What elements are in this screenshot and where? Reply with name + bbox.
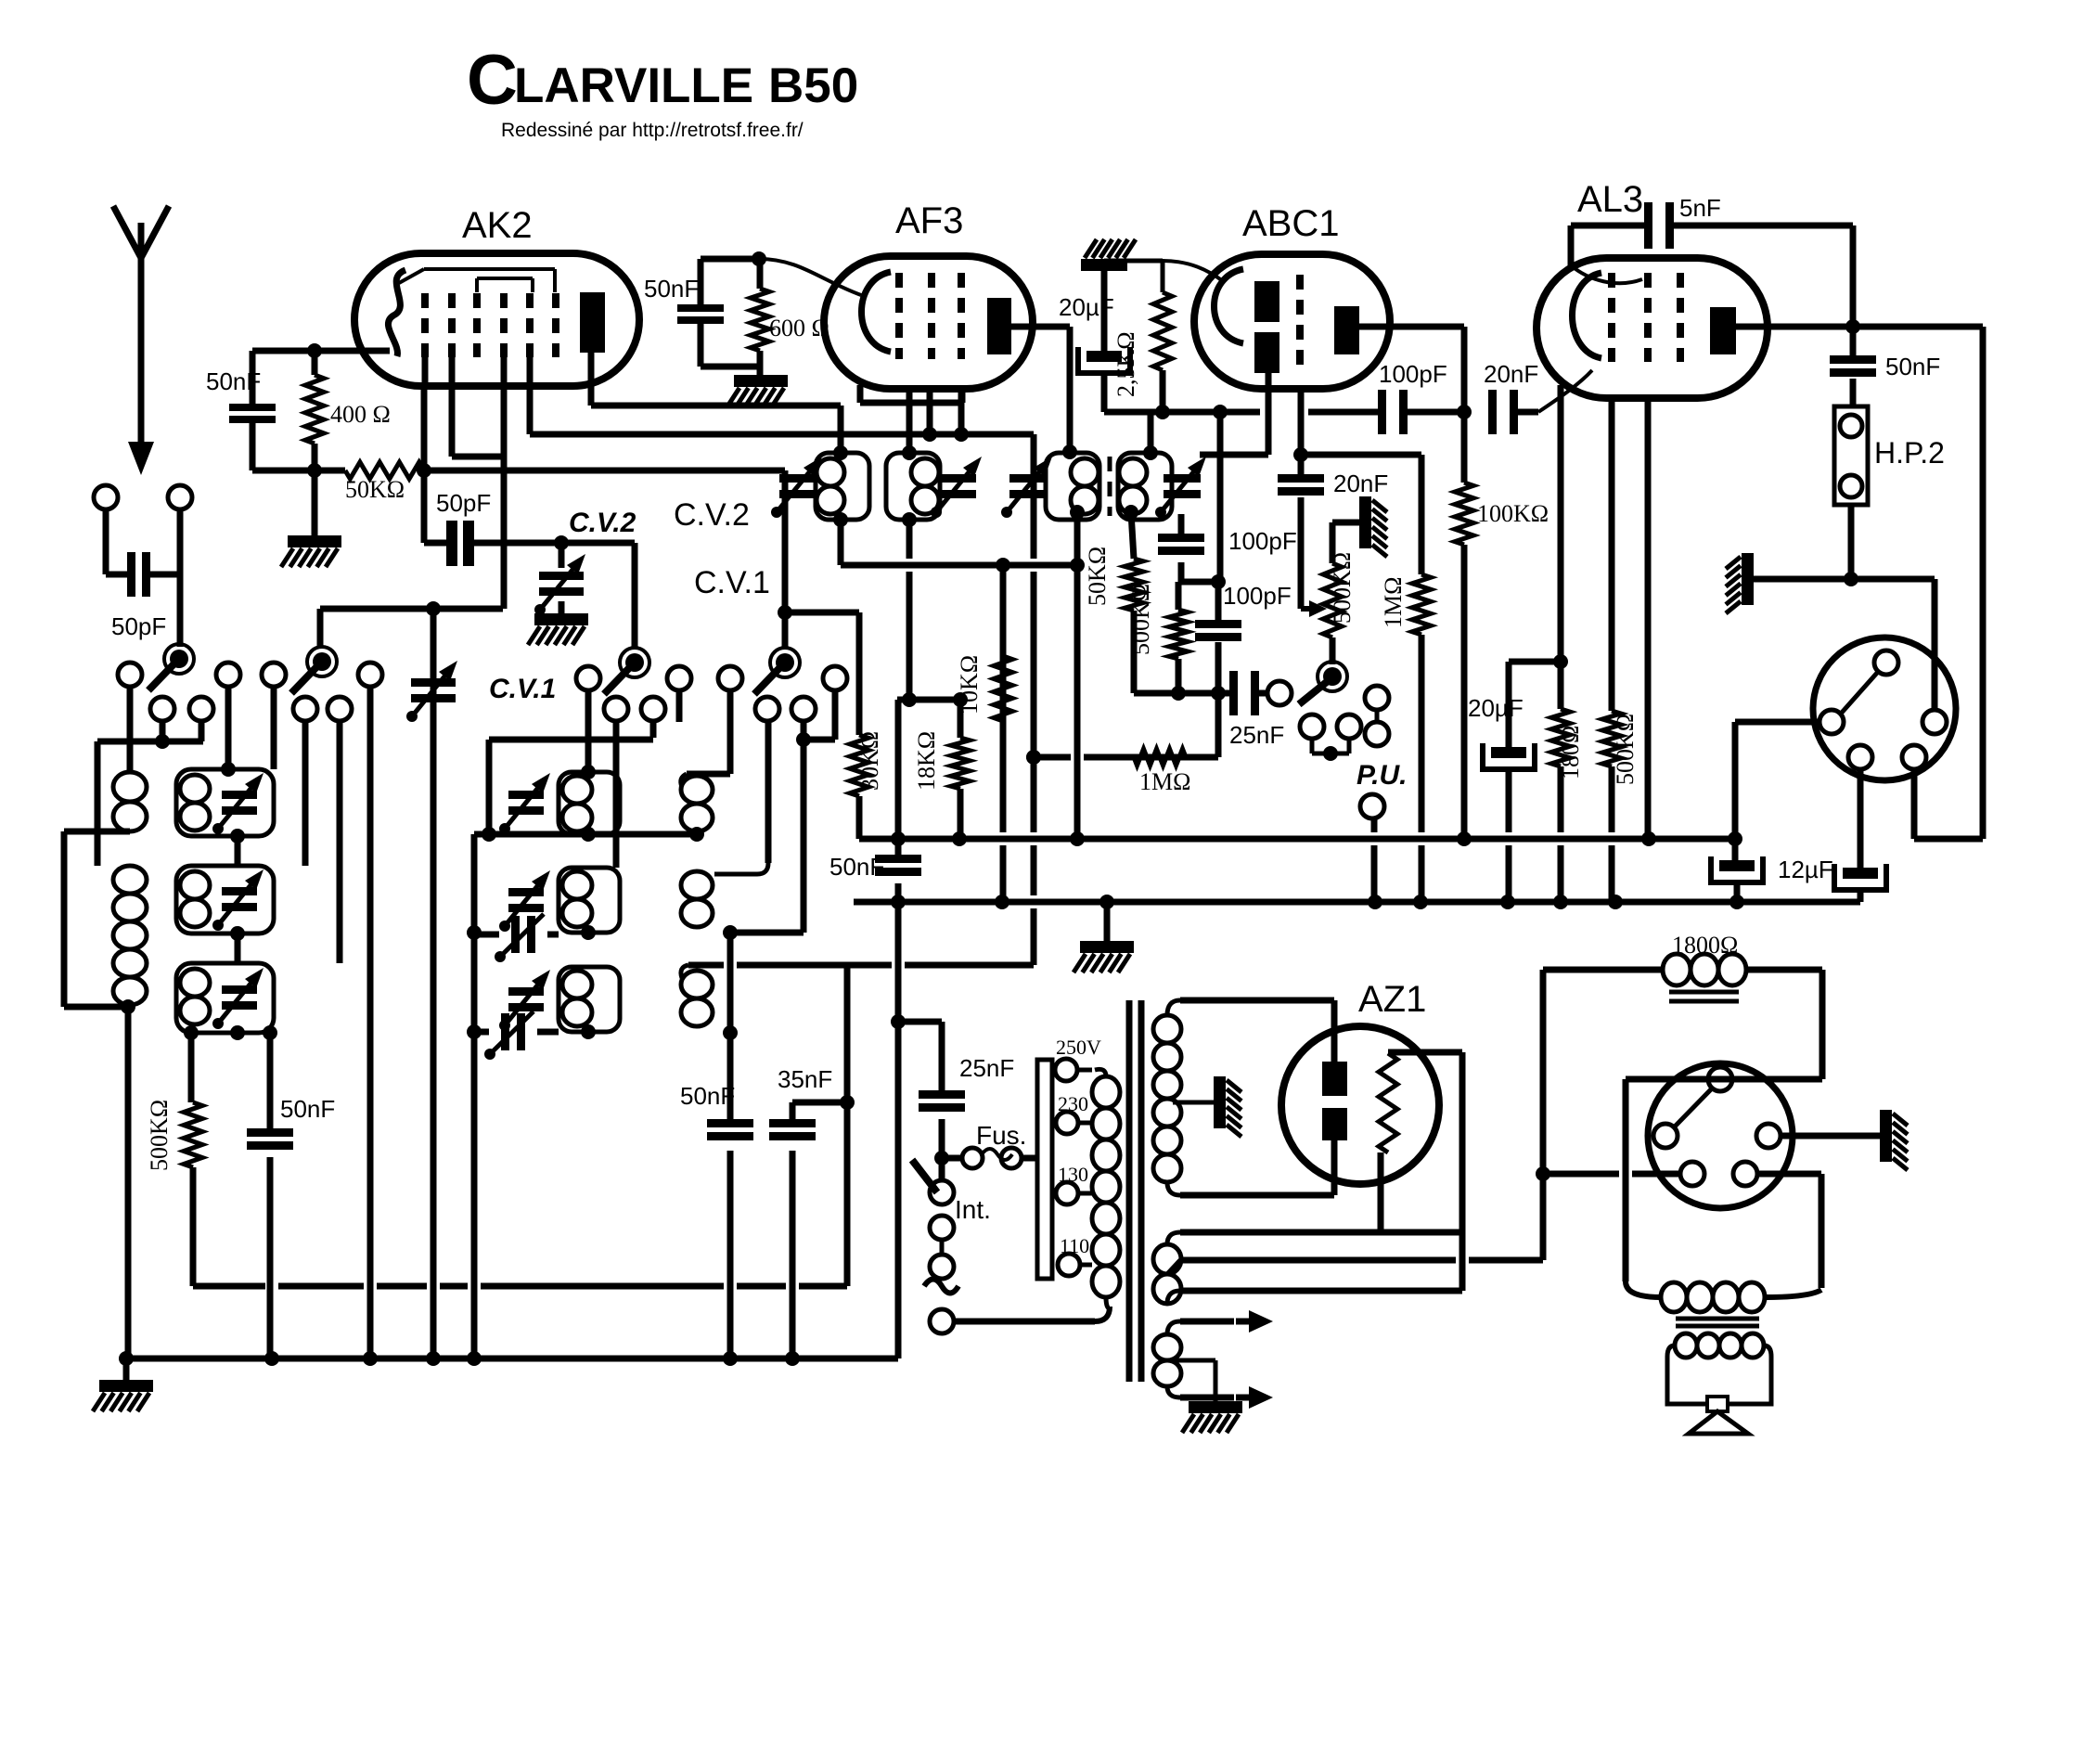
svg-text:20nF: 20nF bbox=[1333, 470, 1388, 497]
svg-text:25nF: 25nF bbox=[1229, 721, 1284, 749]
svg-text:P.U.: P.U. bbox=[1357, 760, 1407, 791]
svg-text:AL3: AL3 bbox=[1577, 179, 1643, 220]
svg-text:10KΩ: 10KΩ bbox=[956, 655, 983, 715]
svg-text:50pF: 50pF bbox=[436, 489, 491, 517]
svg-text:130: 130 bbox=[1058, 1163, 1088, 1186]
svg-text:LARVILLE: LARVILLE bbox=[514, 58, 753, 113]
svg-text:230: 230 bbox=[1058, 1092, 1088, 1115]
svg-text:AK2: AK2 bbox=[462, 205, 533, 246]
svg-text:C.V.1: C.V.1 bbox=[489, 674, 556, 704]
svg-text:500KΩ: 500KΩ bbox=[146, 1100, 173, 1171]
svg-text:C: C bbox=[467, 41, 518, 120]
svg-text:30KΩ: 30KΩ bbox=[856, 731, 883, 791]
svg-text:ABC1: ABC1 bbox=[1242, 203, 1340, 244]
svg-text:100pF: 100pF bbox=[1223, 582, 1292, 610]
svg-text:50nF: 50nF bbox=[206, 367, 261, 395]
svg-text:500KΩ: 500KΩ bbox=[1612, 714, 1639, 785]
svg-text:1MΩ: 1MΩ bbox=[1380, 577, 1407, 628]
svg-text:400 Ω: 400 Ω bbox=[330, 401, 391, 428]
svg-text:20nF: 20nF bbox=[1484, 360, 1538, 388]
svg-text:18KΩ: 18KΩ bbox=[913, 731, 940, 791]
svg-text:100KΩ: 100KΩ bbox=[1477, 500, 1549, 527]
svg-text:110: 110 bbox=[1060, 1234, 1089, 1257]
svg-text:180Ω: 180Ω bbox=[1557, 726, 1584, 779]
svg-text:20µF: 20µF bbox=[1059, 293, 1114, 321]
svg-text:25nF: 25nF bbox=[959, 1054, 1014, 1082]
svg-text:12µF: 12µF bbox=[1778, 856, 1833, 883]
svg-text:Int.: Int. bbox=[955, 1195, 991, 1224]
svg-text:1MΩ: 1MΩ bbox=[1139, 768, 1190, 795]
svg-text:AZ1: AZ1 bbox=[1358, 979, 1426, 1020]
svg-text:100pF: 100pF bbox=[1379, 360, 1447, 388]
svg-text:50nF: 50nF bbox=[829, 853, 884, 881]
svg-text:35nF: 35nF bbox=[778, 1065, 832, 1093]
svg-text:C.V.2: C.V.2 bbox=[674, 497, 750, 533]
svg-text:2,5KΩ: 2,5KΩ bbox=[1112, 331, 1139, 397]
svg-text:B50: B50 bbox=[768, 58, 858, 113]
svg-text:600 Ω: 600 Ω bbox=[769, 315, 829, 341]
svg-text:5nF: 5nF bbox=[1679, 194, 1721, 222]
svg-text:50pF: 50pF bbox=[111, 612, 166, 640]
svg-text:50nF: 50nF bbox=[644, 275, 699, 303]
svg-text:50KΩ: 50KΩ bbox=[1084, 547, 1111, 606]
svg-text:100pF: 100pF bbox=[1228, 527, 1297, 555]
svg-text:C.V.2: C.V.2 bbox=[569, 508, 636, 538]
svg-text:20µF: 20µF bbox=[1468, 694, 1524, 722]
svg-text:500KΩ: 500KΩ bbox=[1329, 552, 1356, 624]
svg-text:50nF: 50nF bbox=[1885, 353, 1940, 380]
svg-text:Fus.: Fus. bbox=[976, 1121, 1026, 1150]
svg-text:C.V.1: C.V.1 bbox=[694, 565, 770, 600]
svg-text:AF3: AF3 bbox=[895, 200, 963, 241]
svg-text:500KΩ: 500KΩ bbox=[1127, 584, 1154, 655]
svg-text:50nF: 50nF bbox=[280, 1095, 335, 1123]
svg-text:50KΩ: 50KΩ bbox=[345, 476, 405, 503]
svg-text:250V: 250V bbox=[1056, 1036, 1101, 1059]
svg-text:50nF: 50nF bbox=[680, 1082, 735, 1110]
svg-text:H.P.2: H.P.2 bbox=[1874, 436, 1945, 470]
svg-text:Redessiné par http://retrotsf.: Redessiné par http://retrotsf.free.fr/ bbox=[501, 120, 804, 141]
